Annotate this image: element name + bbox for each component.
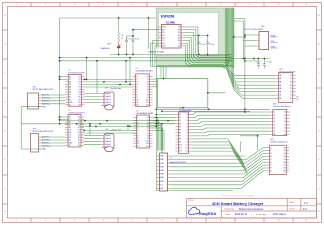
svg-text:P1: P1 [179,117,181,119]
svg-text:C? 10u: C? 10u [134,39,139,41]
svg-text:10: 10 [278,220,280,222]
capacitor C4 [198,35,200,42]
svg-text:CN?: CN? [105,87,108,89]
svg-text:E2: E2 [78,122,80,124]
svg-text:O4: O4 [79,94,81,96]
svg-text:O3: O3 [147,81,149,83]
wire mcp bundle to U9 staircase [171,155,245,157]
svg-text:U?: U? [170,157,172,159]
module inner white symbol box [159,13,219,56]
svg-text:I11: I11 [137,143,139,145]
svg-text:KEYSTONE-4-BATT-CLIPS: KEYSTONE-4-BATT-CLIPS [33,130,55,133]
capacitor C7 [263,59,265,64]
svg-text:I10: I10 [137,141,139,143]
svg-text:P7: P7 [179,135,181,137]
svg-text:1: 1 [16,4,17,6]
svg-text:E3: E3 [78,127,80,129]
svg-text:A: A [318,14,320,17]
wire module bottom drops [160,67,162,79]
svg-text:G: G [4,189,6,191]
svg-text:O5: O5 [283,159,285,161]
svg-text:I3: I3 [270,153,271,155]
svg-text:O7: O7 [283,165,285,167]
svg-text:I5: I5 [136,87,137,89]
wire row2 verticals [89,126,91,135]
svg-text:KEYSTONE-4-BATT-CLIPS: KEYSTONE-4-BATT-CLIPS [33,88,55,91]
svg-text:I2C-PICO-OLED-128x64: I2C-PICO-OLED-128x64 [244,29,263,31]
svg-text:1/1: 1/1 [303,207,307,211]
svg-text:I3: I3 [274,118,275,120]
svg-text:L0: L0 [186,114,188,116]
svg-text:4CH Smart Battery Charger: 4CH Smart Battery Charger [212,201,264,206]
svg-text:I1: I1 [270,147,271,149]
svg-text:L9: L9 [186,142,188,144]
ESP8266 module region fill [157,8,235,67]
svg-text:I6: I6 [137,130,138,132]
wire cn1 to u2 [42,94,66,96]
svg-text:TITLE:: TITLE: [188,200,194,202]
svg-text:O2: O2 [284,115,286,117]
svg-text:C3: C3 [69,129,71,131]
svg-text:C: C [318,73,320,75]
svg-text:F: F [319,160,320,162]
svg-text:P2: P2 [179,120,181,122]
svg-text:H: H [318,211,320,213]
svg-text:11: 11 [305,220,307,222]
svg-text:O4: O4 [283,156,285,158]
svg-text:11: 11 [305,4,307,6]
svg-text:F: F [5,160,6,162]
connector U9 MCP23017 breakout [160,153,168,191]
svg-text:2: 2 [45,220,46,222]
wire rail y58.5 [233,58,270,60]
svg-text:O11: O11 [146,102,149,104]
wire cap pair feed [133,29,159,31]
svg-text:2B: 2B [279,78,281,80]
svg-text:O10: O10 [146,141,149,143]
svg-text:D0: D0 [162,32,164,34]
svg-text:O1: O1 [79,79,81,81]
wire top horizontal [60,17,157,19]
svg-text:R?: R? [297,97,299,99]
svg-text:I1: I1 [137,117,138,119]
wire r-c top [118,18,120,33]
svg-text:Chg-Pos-4-pin: Chg-Pos-4-pin [110,88,121,90]
svg-text:I1: I1 [274,112,275,114]
svg-text:P5: P5 [179,129,181,131]
svg-text:CN?: CN? [33,128,36,130]
svg-text:7: 7 [191,220,192,222]
svg-text:P11: P11 [179,148,182,150]
svg-text:P12: P12 [179,151,182,153]
svg-text:O2: O2 [78,124,80,126]
svg-text:I5: I5 [270,159,271,161]
svg-text:O8: O8 [284,134,286,136]
wire oled pins [245,34,256,36]
svg-text:P3: P3 [179,123,181,125]
svg-text:I4: I4 [136,84,137,86]
wire bundle module-to-U7 staircase [224,8,226,66]
svg-text:5: 5 [132,220,133,222]
svg-text:4: 4 [103,220,104,222]
svg-text:Sheet:: Sheet: [289,208,296,211]
svg-text:E4: E4 [78,132,80,134]
wire u6 right fan to U8 [192,114,194,116]
LED D1 [118,43,120,45]
svg-text:O6: O6 [284,128,286,130]
svg-text:D5: D5 [162,35,164,37]
capacitor C1 [126,36,128,40]
svg-text:O11: O11 [146,143,149,145]
svg-text:LED?: LED? [107,43,111,45]
svg-text:C? 0.1u: C? 0.1u [200,44,206,46]
capacitor C6 [257,59,259,64]
svg-text:GND: GND [42,106,47,108]
svg-text:6: 6 [162,4,163,6]
svg-text:Shaw Communications: Shaw Communications [239,208,264,211]
svg-text:O4: O4 [284,121,286,123]
svg-text:H: H [4,211,6,213]
wire module right staircase [184,26,198,28]
svg-text:O6: O6 [283,162,285,164]
svg-text:2023-02-14: 2023-02-14 [235,213,248,216]
svg-text:I8: I8 [270,168,271,170]
svg-text:6: 6 [162,220,163,222]
wire u3 right to big rect [153,78,158,80]
svg-text:O4: O4 [78,135,80,137]
svg-text:3: 3 [74,220,75,222]
svg-text:O9: O9 [283,171,285,173]
wire rails row2 [60,120,176,122]
svg-text:O12: O12 [146,105,149,107]
svg-text:I12: I12 [137,146,139,148]
svg-text:O1: O1 [147,117,149,119]
svg-text:C3: C3 [69,89,71,91]
svg-text:CN?: CN? [261,26,264,28]
svg-text:C? 10u: C? 10u [267,62,272,64]
svg-text:EasyEDA: EasyEDA [199,212,216,216]
wire left vertical rail [59,18,61,124]
resistor R1 [118,33,120,43]
svg-text:I8: I8 [274,134,275,136]
svg-text:3: 3 [74,4,75,6]
title block [187,199,317,219]
svg-text:E4: E4 [79,92,81,94]
wire long horizontals above u6 [156,108,269,110]
svg-text:O2: O2 [147,79,149,81]
wire rail x244.9 [244,44,246,112]
wire x162 vertical [161,124,163,153]
op module U1 D1-MINI symbol [162,25,182,49]
wire left rail x156.3 [155,67,157,191]
svg-text:D: D [318,102,320,104]
svg-text:I4: I4 [270,156,271,158]
svg-text:O5: O5 [147,128,149,130]
svg-text:O1: O1 [147,76,149,78]
svg-text:L12: L12 [185,151,188,153]
wire module left pins [153,40,159,42]
svg-text:1: 1 [16,220,17,222]
wire u6 left stubs [156,114,175,116]
wire cn2 gnd [21,148,41,150]
svg-text:I2: I2 [136,79,137,81]
svg-text:GND: GND [42,149,47,151]
svg-text:9: 9 [249,220,250,222]
svg-text:O3: O3 [79,89,81,91]
svg-text:E3: E3 [79,87,81,89]
svg-text:D3: D3 [178,38,180,40]
svg-text:O7: O7 [284,131,286,133]
svg-text:I7: I7 [136,92,137,94]
svg-text:B: B [4,44,5,46]
svg-text:C1: C1 [69,79,71,81]
svg-text:C: C [4,73,6,75]
svg-text:D4: D4 [178,40,180,42]
svg-text:O12: O12 [146,146,149,148]
svg-text:O6: O6 [147,130,149,132]
svg-text:VCC: VCC [160,184,163,186]
svg-text:CN?: CN? [105,129,108,131]
svg-text:C4: C4 [69,94,71,96]
svg-text:L6: L6 [186,132,188,134]
svg-text:4: 4 [103,4,104,6]
svg-text:REV:: REV: [289,202,294,204]
svg-text:I2: I2 [274,115,275,117]
svg-text:O9: O9 [147,97,149,99]
wire mid cross links [240,135,258,137]
wire cn1 gnd [21,106,41,108]
svg-text:C4: C4 [69,135,71,137]
svg-text:8B: 8B [279,98,281,100]
svg-text:L8: L8 [186,139,188,141]
svg-text:I4: I4 [274,121,275,123]
svg-text:O5: O5 [147,87,149,89]
wire cap rail [184,34,208,36]
svg-text:O3: O3 [78,129,80,131]
svg-text:L7: L7 [186,135,188,137]
wire vertical x148.5 [148,18,150,55]
wire u4-left stubs [60,116,66,118]
svg-text:C2: C2 [69,124,71,126]
svg-text:ULN2803A-8CH-DARL: ULN2803A-8CH-DARL [136,69,153,72]
wire sda scl branch [234,36,245,38]
svg-text:I7: I7 [274,131,275,133]
wire bottom band horizontal [110,54,233,56]
wire big loop rectangle [157,79,208,108]
svg-text:D2: D2 [178,35,180,37]
wire u6 lower diag [192,138,229,140]
svg-text:6B: 6B [279,91,281,93]
svg-text:4CH Smart Battery Charger: 4CH Smart Battery Charger [221,193,254,197]
svg-text:O8: O8 [147,94,149,96]
svg-text:I9: I9 [136,97,137,99]
svg-text:ULN-Row-4-byPinhead: ULN-Row-4-byPinhead [270,142,287,144]
svg-text:L2: L2 [186,120,188,122]
wire cn2 to u4 [42,136,66,138]
svg-text:O4: O4 [147,84,149,86]
svg-text:O3: O3 [284,118,286,120]
svg-text:Chris Hayes: Chris Hayes [273,213,287,216]
svg-text:I7: I7 [137,133,138,135]
svg-text:O8: O8 [283,168,285,170]
svg-text:E1: E1 [78,117,80,119]
svg-text:E2: E2 [79,81,81,83]
svg-text:O1: O1 [283,147,285,149]
svg-text:7B: 7B [279,95,281,97]
svg-text:7: 7 [191,4,192,6]
svg-text:C2: C2 [69,84,71,86]
svg-text:I3: I3 [136,81,137,83]
net label CHARGER-5V-BAL [147,49,173,54]
svg-text:I6: I6 [270,162,271,164]
svg-text:D: D [4,102,6,104]
svg-text:I7: I7 [270,165,271,167]
svg-text:ESP8266: ESP8266 [161,15,175,19]
svg-text:4B: 4B [279,85,281,87]
svg-text:I5: I5 [137,128,138,130]
easyeda logo [189,207,200,215]
svg-text:G: G [318,189,320,191]
svg-text:I10: I10 [136,100,138,102]
svg-text:P6: P6 [179,132,181,134]
wire row2 horizontals [84,134,101,136]
svg-text:C? 0.1u: C? 0.1u [127,39,132,41]
svg-text:I12: I12 [136,105,138,107]
distribution rails [60,57,233,59]
svg-text:Date:: Date: [225,213,231,216]
svg-text:I4: I4 [137,125,138,127]
svg-text:10: 10 [278,4,280,6]
svg-text:P4: P4 [179,126,181,128]
svg-text:P10: P10 [179,145,182,147]
wire u-left stubs [60,76,66,78]
svg-text:D7: D7 [162,40,164,42]
svg-text:O7: O7 [147,133,149,135]
svg-text:8: 8 [220,4,221,6]
svg-text:L10: L10 [185,145,188,147]
svg-text:E1: E1 [79,76,81,78]
svg-text:L1: L1 [186,117,188,119]
svg-text:R?: R? [121,35,123,37]
wire row1 verticals [86,58,88,80]
svg-text:1.0: 1.0 [304,201,308,205]
svg-text:2: 2 [45,4,46,6]
svg-text:O2: O2 [283,150,285,152]
svg-text:O4: O4 [147,125,149,127]
svg-text:8: 8 [220,220,221,222]
svg-text:Drawn By:: Drawn By: [256,213,266,216]
svg-text:L4: L4 [186,126,188,128]
svg-text:E: E [318,131,319,133]
svg-text:I5: I5 [274,124,275,126]
svg-text:O8: O8 [147,135,149,137]
svg-text:C? 10u: C? 10u [209,44,215,46]
svg-text:I6: I6 [136,89,137,91]
capacitor C2 [132,36,134,40]
svg-text:1B: 1B [279,75,281,77]
svg-text:P9: P9 [179,142,181,144]
wire module top to OLED connector [234,18,245,20]
svg-text:P0: P0 [179,114,181,116]
svg-text:5B: 5B [279,88,281,90]
svg-text:O9: O9 [147,138,149,140]
svg-text:L11: L11 [186,148,189,150]
svg-text:B: B [318,44,319,46]
svg-text:R?: R? [297,99,299,101]
svg-text:5: 5 [132,4,133,6]
svg-text:O6: O6 [147,89,149,91]
svg-text:O10: O10 [146,100,149,102]
svg-text:1k: 1k [121,37,123,39]
svg-text:O3: O3 [283,153,285,155]
svg-text:I8: I8 [136,94,137,96]
svg-text:I8: I8 [137,135,138,137]
svg-text:I3: I3 [137,122,138,124]
svg-text:O5: O5 [284,124,286,126]
svg-text:E: E [4,131,5,133]
svg-text:O3: O3 [147,122,149,124]
svg-text:CHARGING: CHARGING [100,47,110,50]
svg-text:GND: GND [160,188,163,190]
wire row1 horizontals [85,78,133,80]
capacitor C5 [207,35,209,42]
svg-text:A: A [4,14,6,17]
svg-text:O1: O1 [284,112,286,114]
svg-text:3B: 3B [279,82,281,84]
svg-text:3V3: 3V3 [162,46,165,48]
svg-text:CN?: CN? [33,86,36,88]
svg-text:I9: I9 [137,138,138,140]
svg-text:9: 9 [249,4,250,6]
svg-text:A0: A0 [162,28,164,31]
svg-text:O7: O7 [147,92,149,94]
wire y61 stub [245,60,258,62]
svg-text:O2: O2 [79,84,81,86]
svg-text:P8: P8 [179,139,181,141]
wire u5 right staircase down [153,117,158,119]
svg-text:I2: I2 [270,150,271,152]
svg-text:C? 1u: C? 1u [257,62,261,64]
svg-text:ULN-Row-4-byPinhead: ULN-Row-4-byPinhead [273,106,290,108]
svg-text:I9: I9 [270,171,271,173]
svg-text:D6: D6 [162,38,164,40]
svg-text:D8: D8 [162,43,164,45]
svg-text:I6: I6 [274,128,275,130]
svg-text:ULN2803A-8CH-DARL: ULN2803A-8CH-DARL [136,112,153,115]
svg-text:I1: I1 [136,76,137,78]
svg-text:D1: D1 [178,32,180,34]
svg-text:Company:: Company: [224,209,234,211]
svg-text:I11: I11 [136,102,138,104]
svg-text:L3: L3 [186,123,188,125]
svg-text:L5: L5 [186,129,188,131]
